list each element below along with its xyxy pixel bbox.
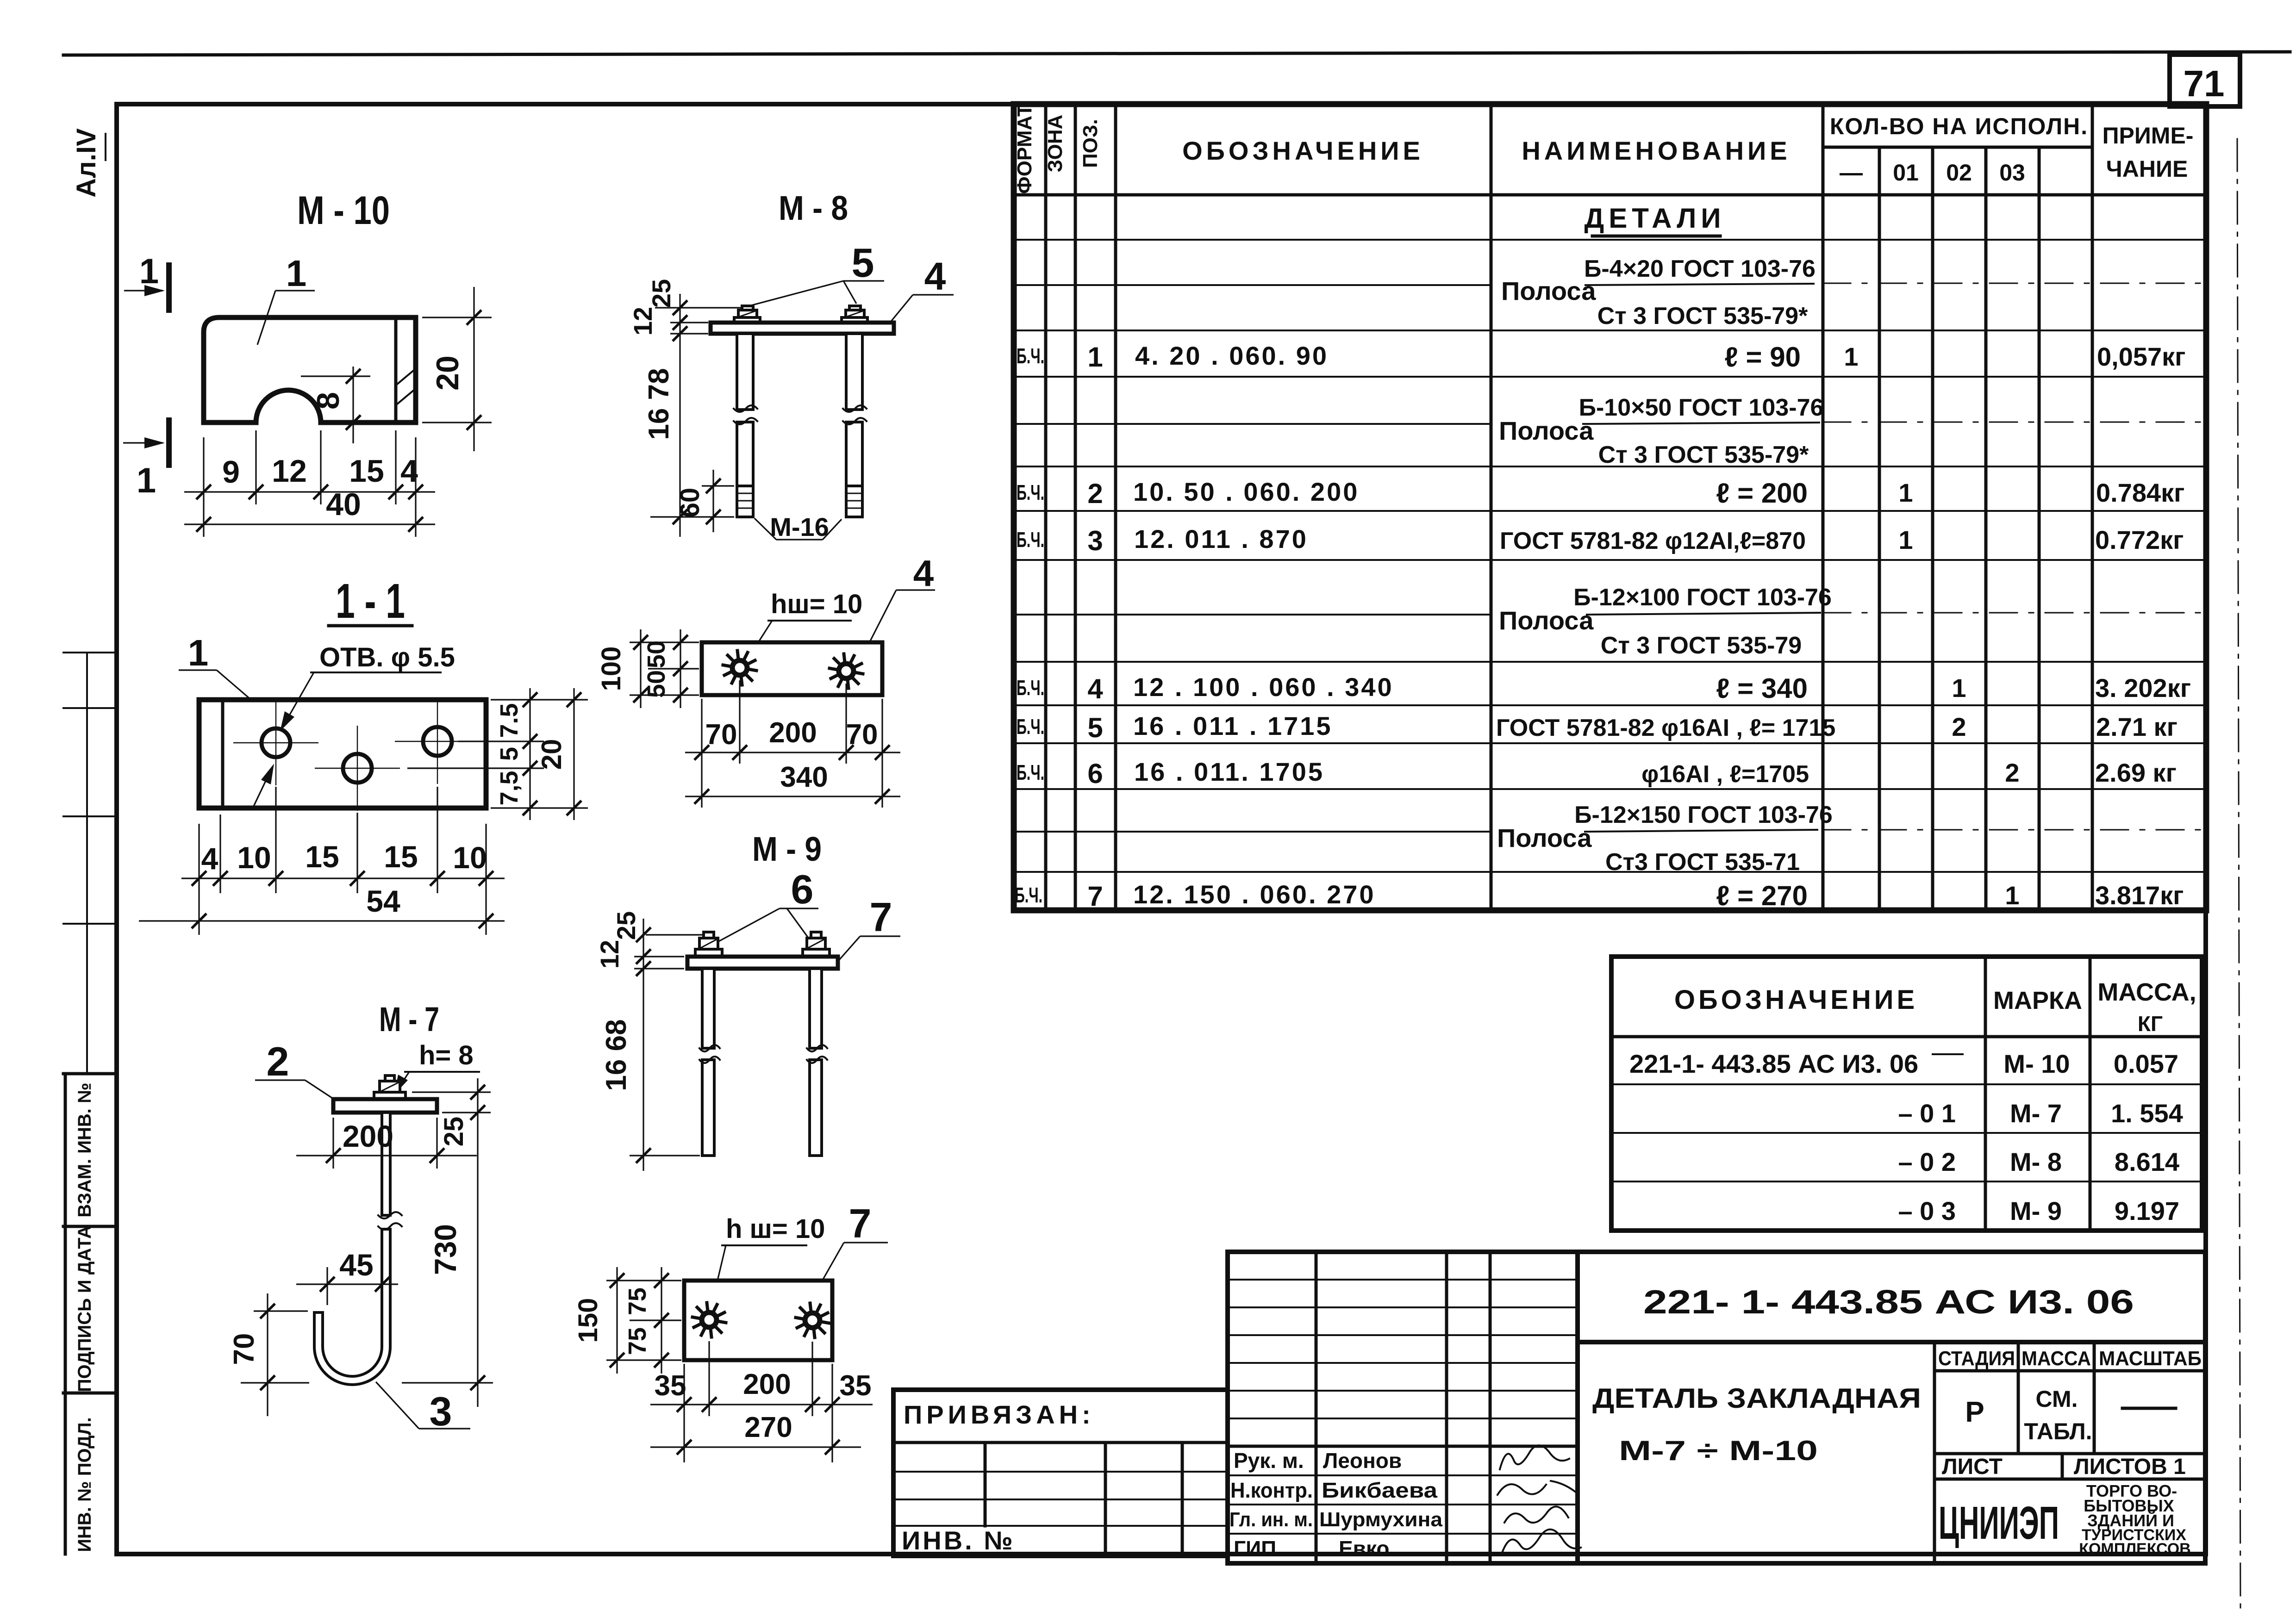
svg-text:730: 730 [428,1224,462,1275]
left anchor bolt 5 threaded end [737,486,753,517]
fraction entry Polosa B-12x100 [1499,584,1832,659]
svg-text:35: 35 [840,1370,872,1402]
svg-text:1: 1 [1898,478,1913,507]
marka row 2 [1898,1099,2183,1128]
svg-text:6: 6 [1087,758,1103,789]
weld symbol right M-9 [796,1303,829,1337]
svg-text:2.71 кг: 2.71 кг [2096,712,2177,741]
svg-text:h ш= 10: h ш= 10 [726,1214,825,1244]
svg-text:100: 100 [596,647,626,691]
svg-text:ДЕТАЛИ: ДЕТАЛИ [1585,203,1726,234]
svg-text:150: 150 [573,1298,603,1343]
svg-text:– 0 1: – 0 1 [1898,1099,1956,1128]
svg-text:Б.Ч.: Б.Ч. [1017,676,1044,700]
svg-text:Леонов: Леонов [1323,1449,1402,1473]
svg-text:340: 340 [780,761,828,793]
svg-text:70: 70 [228,1333,260,1365]
svg-text:200: 200 [343,1119,393,1153]
svg-text:ПРИМЕ-: ПРИМЕ- [2103,123,2194,149]
svg-text:0.784кг: 0.784кг [2096,478,2185,507]
section 1-1 plate [199,700,486,808]
part 1 plate M-10 outline [204,317,416,423]
bottom extension lines 1-1 [199,787,486,935]
svg-text:4: 4 [1087,673,1103,704]
weld symbol right M-8 [830,654,863,688]
svg-text:ОБОЗНАЧЕНИЕ: ОБОЗНАЧЕНИЕ [1674,985,1918,1015]
left washer M-8 [734,317,760,323]
svg-text:54: 54 [366,884,400,918]
org cell TsNIIEP [1939,1481,2191,1558]
svg-text:12: 12 [628,307,657,336]
anchor rod 3 hook [314,1229,390,1385]
section plate inner edge [221,700,225,808]
svg-text:1: 1 [1087,342,1103,373]
left margin attribute boxes [63,653,117,1554]
right washer M-9 [803,949,830,957]
svg-text:ЗОНА: ЗОНА [1044,115,1067,173]
svg-text:1: 1 [137,461,156,500]
sheet number box 71 [2170,55,2240,106]
svg-text:01: 01 [1893,160,1919,186]
bolt stub M-7 [385,1076,394,1081]
svg-text:8: 8 [311,392,346,410]
dimension 7.5 5 7.5 [495,688,537,820]
svg-text:1: 1 [139,252,159,291]
svg-text:ПОДПИСЬ И ДАТА: ПОДПИСЬ И ДАТА [75,1225,95,1392]
svg-text:ℓ = 90: ℓ = 90 [1725,342,1801,373]
svg-text:МАССА: МАССА [2021,1347,2091,1370]
svg-text:9.197: 9.197 [2115,1196,2179,1225]
svg-text:5: 5 [495,747,523,761]
svg-text:0,057кг: 0,057кг [2097,342,2186,371]
svg-text:1: 1 [1898,525,1913,554]
svg-text:КОМПЛЕКСОВ: КОМПЛЕКСОВ [2079,1540,2191,1558]
svg-text:Гл. ин. м.: Гл. ин. м. [1229,1508,1313,1531]
svg-text:hш= 10: hш= 10 [771,589,862,619]
svg-text:3: 3 [1087,525,1103,556]
right bolt stub M-8 [849,306,861,310]
right nut M-8 [846,310,864,317]
svg-text:8.614: 8.614 [2115,1147,2179,1176]
svg-text:75: 75 [624,1287,651,1315]
svg-text:φ16АI , ℓ=1705: φ16АI , ℓ=1705 [1641,761,1809,788]
svg-text:15: 15 [305,839,339,874]
svg-text:КГ: КГ [2138,1012,2163,1036]
plan M-9 left dims 150 75 75 [573,1267,681,1374]
right trim line (thin, dashed look) [2237,139,2240,1608]
dimension 40 [184,487,435,532]
plate 7 M-9 [687,957,838,969]
svg-text:Б.Ч.: Б.Ч. [1015,883,1042,907]
note h=8 [394,1040,479,1094]
svg-text:12. 011 . 870: 12. 011 . 870 [1134,524,1308,553]
row pos 6 [1017,757,2177,789]
row pos 5 [1017,711,2177,743]
svg-text:Ст 3 ГОСТ 535-79*: Ст 3 ГОСТ 535-79* [1598,442,1809,468]
svg-text:Ал.IV: Ал.IV [71,128,101,198]
right anchor bolt 5 lower [846,422,862,486]
svg-text:35: 35 [655,1370,686,1402]
svg-text:ГОСТ 5781-82 φ12АI,ℓ=870: ГОСТ 5781-82 φ12АI,ℓ=870 [1500,528,1806,554]
row pos 2 [1017,477,2185,509]
svg-text:Ст 3 ГОСТ 535-79*: Ст 3 ГОСТ 535-79* [1597,303,1808,330]
svg-text:9: 9 [222,454,240,490]
break marks M-9 legs [699,1045,827,1063]
left anchor bolt 5 lower [737,422,753,486]
dimension 8 (notch) [301,367,370,443]
svg-text:Ст3 ГОСТ 535-71: Ст3 ГОСТ 535-71 [1605,849,1800,876]
svg-text:25: 25 [439,1117,469,1147]
svg-text:2.69 кг: 2.69 кг [2095,758,2177,787]
dimension row 9 12 15 4 [184,454,435,499]
left nut M-9 [699,938,718,949]
signature names rows [1229,1449,1443,1561]
svg-text:200: 200 [769,717,817,749]
svg-text:3: 3 [430,1388,452,1434]
svg-text:7.5: 7.5 [495,703,523,738]
row pos 7 [1015,880,2184,912]
svg-text:6: 6 [791,866,814,912]
row pos 3 [1017,524,2184,556]
svg-text:1: 1 [188,632,209,673]
svg-text:М- 8: М- 8 [2010,1147,2062,1176]
top trim line [63,52,2290,55]
svg-text:Евко: Евко [1339,1536,1389,1561]
svg-text:МАРКА: МАРКА [1993,987,2082,1014]
svg-text:М- 9: М- 9 [2010,1196,2062,1225]
plan view M-9: weld note [711,1214,825,1310]
svg-text:КОЛ-ВО НА ИСПОЛН.: КОЛ-ВО НА ИСПОЛН. [1830,113,2088,139]
svg-text:70: 70 [705,719,737,751]
M-10 bottom extension lines [204,430,416,537]
svg-text:4: 4 [924,255,946,298]
row DETALI [1585,203,1726,236]
svg-text:1. 554: 1. 554 [2111,1099,2183,1128]
stamp Al.IV rotated [71,128,106,198]
svg-text:20: 20 [536,739,567,770]
left washer M-9 [695,949,722,957]
svg-text:15: 15 [384,839,418,874]
svg-text:1: 1 [1952,673,1966,703]
svg-text:1: 1 [2005,881,2019,910]
svg-text:16 . 011 . 1715: 16 . 011 . 1715 [1133,711,1333,740]
svg-text:ℓ = 270: ℓ = 270 [1716,880,1808,911]
svg-text:ГИП: ГИП [1234,1536,1276,1561]
dimension 20 right of M-10 [422,287,492,451]
svg-text:221- 1- 443.85 АС И3. 06: 221- 1- 443.85 АС И3. 06 [1643,1284,2134,1321]
svg-text:Н.контр.: Н.контр. [1230,1478,1313,1502]
svg-text:12: 12 [272,454,307,489]
row pos 4 [1017,672,2191,704]
svg-text:М-7 ÷ М-10: М-7 ÷ М-10 [1619,1435,1818,1466]
svg-text:ОТВ. φ 5.5: ОТВ. φ 5.5 [319,642,455,672]
svg-text:МАСШТАБ: МАСШТАБ [2099,1347,2202,1370]
svg-text:02: 02 [1946,160,1972,186]
svg-text:2: 2 [1087,478,1103,509]
svg-text:3. 202кг: 3. 202кг [2095,673,2191,703]
left anchor bolt 6 lower [702,1060,714,1156]
part M-10 inner edge line [394,317,398,423]
leader 6 bolts M-9 [712,866,818,945]
header PRIMECHANIE [2103,123,2194,182]
svg-text:Полоса: Полоса [1501,276,1596,305]
svg-text:НАИМЕНОВАНИЕ: НАИМЕНОВАНИЕ [1522,136,1791,165]
plan view M-8 plate 4 [702,642,882,695]
svg-text:7: 7 [870,894,892,940]
right washer M-8 [842,317,867,323]
svg-text:70: 70 [846,719,878,751]
svg-text:М- 10: М- 10 [2003,1049,2070,1078]
privyazan block frame [893,1390,1228,1556]
svg-text:2: 2 [267,1038,289,1084]
svg-text:Рук. м.: Рук. м. [1234,1449,1304,1473]
plan view M-9 plate 7 [684,1281,832,1360]
svg-text:1 - 1: 1 - 1 [336,574,405,628]
leader 3 hook M-7 [376,1382,470,1434]
title block main divider [1575,1252,1580,1563]
svg-text:Р: Р [1965,1396,1984,1428]
svg-text:М - 9: М - 9 [752,830,822,868]
svg-text:ДЕТАЛЬ ЗАКЛАДНАЯ: ДЕТАЛЬ ЗАКЛАДНАЯ [1592,1383,1921,1414]
dimension 45 M-7 [296,1248,398,1305]
plate 2 M-7 [333,1099,437,1113]
svg-text:2: 2 [1952,712,1966,741]
section cut mark 1 lower [123,420,169,500]
svg-text:М- 7: М- 7 [2010,1099,2062,1128]
svg-text:50: 50 [643,670,670,698]
svg-text:М - 8: М - 8 [779,189,848,227]
svg-text:10: 10 [237,840,271,875]
svg-text:Б-12×150 ГОСТ 103-76: Б-12×150 ГОСТ 103-76 [1574,802,1833,828]
right extension lines 1-1 [407,700,588,808]
svg-text:15: 15 [349,454,384,489]
leader 1 on section plate [179,632,250,699]
hole 2 [315,726,400,811]
title block left grid columns [1316,1252,1490,1563]
svg-text:– 0 3: – 0 3 [1898,1196,1956,1225]
leader 5 bolts M-8 [751,240,884,305]
svg-text:ЧАНИЕ: ЧАНИЕ [2106,156,2188,182]
marka row 1 [1629,1049,2178,1078]
plan M-8 left dims 100 50 50 [596,629,699,708]
stadia massa masshtab values [1965,1386,2176,1444]
svg-text:ИНВ. №: ИНВ. № [902,1526,1015,1555]
svg-text:5: 5 [1087,712,1103,743]
right anchor bolt 5 threaded end [846,486,862,517]
svg-text:45: 45 [339,1248,373,1282]
section cut mark 1 upper [124,252,169,310]
stadia massa masshtab header [1934,1342,2205,1563]
svg-text:7: 7 [1087,881,1103,912]
svg-text:4. 20 . 060. 90: 4. 20 . 060. 90 [1135,341,1329,370]
right anchor bolt 6 lower [810,1060,822,1156]
svg-text:71: 71 [2184,63,2225,104]
svg-text:Б-4×20 ГОСТ 103-76: Б-4×20 ГОСТ 103-76 [1584,255,1816,282]
leader 1 on M-10 [257,253,315,345]
svg-text:0.057: 0.057 [2114,1049,2178,1078]
svg-text:4: 4 [400,454,418,489]
hole 3 [395,699,480,784]
plan view M-9: leader 7 [823,1200,888,1280]
dimension 200 M-7 [296,1118,477,1169]
name cell detail zakladnaya [1592,1383,1921,1466]
label M-16 [755,512,842,541]
fraction entry Polosa B-4x20 [1501,255,1816,330]
svg-text:12: 12 [595,940,624,969]
svg-text:0.772кг: 0.772кг [2095,525,2184,554]
dimensions 25 12 1678 M-8 [628,279,741,537]
svg-text:2: 2 [2005,758,2019,787]
svg-text:ℓ = 340: ℓ = 340 [1716,673,1808,704]
plan view M-8: weld note [745,589,862,663]
svg-text:ℓ = 200: ℓ = 200 [1716,478,1808,509]
svg-text:16 68: 16 68 [600,1019,632,1091]
marka table headers [1674,978,2196,1036]
fraction entry Polosa B-12x150 [1497,802,1833,876]
dimensions 25 12 1668 M-9 [595,911,704,1171]
svg-text:25: 25 [611,911,641,940]
svg-text:ПРИВЯЗАН:: ПРИВЯЗАН: [904,1400,1095,1429]
dimension 54 [139,884,505,928]
svg-text:60: 60 [675,488,705,518]
weld symbol left M-9 [693,1303,726,1337]
svg-text:10. 50 . 060. 200: 10. 50 . 060. 200 [1133,477,1359,506]
svg-text:200: 200 [743,1368,791,1400]
svg-text:03: 03 [1999,160,2025,186]
weld symbol left M-8 [723,651,756,685]
svg-text:Б.Ч.: Б.Ч. [1017,528,1044,552]
svg-text:Ст 3 ГОСТ 535-79: Ст 3 ГОСТ 535-79 [1601,632,1802,659]
svg-text:МАССА,: МАССА, [2097,978,2196,1006]
svg-text:12 . 100 . 060 . 340: 12 . 100 . 060 . 340 [1133,672,1394,702]
svg-text:16 78: 16 78 [643,368,675,440]
dimension 20 section [536,688,581,820]
svg-text:Б.Ч.: Б.Ч. [1017,344,1044,368]
svg-text:Б.Ч.: Б.Ч. [1017,480,1044,504]
svg-text:ПОЗ.: ПОЗ. [1079,119,1102,168]
svg-text:4: 4 [913,553,934,594]
signatures squiggles [1497,1445,1581,1553]
left anchor bolt 5 upper [737,334,753,410]
svg-text:5: 5 [852,240,874,286]
svg-text:ГОСТ 5781-82 φ16АI , ℓ= 1715: ГОСТ 5781-82 φ16АI , ℓ= 1715 [1496,715,1835,741]
svg-text:ФОРМАТ: ФОРМАТ [1013,104,1036,194]
svg-text:1: 1 [286,253,307,294]
left bolt stub M-8 [742,306,753,310]
svg-text:ОБОЗНАЧЕНИЕ: ОБОЗНАЧЕНИЕ [1182,136,1424,165]
svg-text:16 . 011. 1705: 16 . 011. 1705 [1134,757,1324,786]
section 1-1 title [329,574,412,628]
svg-text:50: 50 [643,640,670,668]
marka row 4 [1898,1196,2179,1225]
title block left grid rows [1228,1280,1578,1534]
anchor rod 3 upper segment [382,1113,390,1215]
svg-text:40: 40 [326,487,361,522]
doc number cell [1578,1284,2205,1342]
list listov row [1934,1454,2205,1479]
right anchor bolt 5 upper [846,334,862,410]
marka mass table frame [1611,957,2202,1231]
svg-text:Б.Ч.: Б.Ч. [1017,760,1044,784]
svg-text:ИНВ. № ПОДЛ.: ИНВ. № ПОДЛ. [75,1417,95,1552]
svg-text:Б-12×100 ГОСТ 103-76: Б-12×100 ГОСТ 103-76 [1573,584,1832,611]
svg-text:12. 150 . 060. 270: 12. 150 . 060. 270 [1133,880,1376,909]
right bolt stub M-9 [811,932,821,938]
plan M-8 bottom dims 70 200 70 340 [685,680,900,808]
svg-text:Б.Ч.: Б.Ч. [1017,715,1044,739]
svg-text:М - 7: М - 7 [379,1000,439,1038]
svg-text:Б-10×50 ГОСТ 103-76: Б-10×50 ГОСТ 103-76 [1579,394,1824,421]
svg-text:Шурмухина: Шурмухина [1319,1508,1443,1531]
dimension row 4 10 15 15 10 [181,839,505,886]
svg-text:10: 10 [453,840,487,875]
svg-text:М-16: М-16 [770,512,829,541]
row pos 1 [1017,341,2186,373]
left nut M-8 [738,310,757,317]
left bolt stub M-9 [704,932,714,938]
parts table row lines [1014,240,2206,872]
svg-text:ТАБЛ.: ТАБЛ. [2024,1418,2092,1444]
svg-text:СМ.: СМ. [2036,1386,2078,1412]
leader 4 plate M-8 [885,255,954,329]
svg-text:Бикбаева: Бикбаева [1322,1478,1437,1502]
svg-text:ЦНИИЭП: ЦНИИЭП [1939,1497,2059,1549]
svg-text:221-1- 443.85 АС И3. 06: 221-1- 443.85 АС И3. 06 [1629,1049,1918,1078]
right nut M-9 [807,938,825,949]
svg-text:– 0 2: – 0 2 [1898,1147,1956,1176]
plan M-9 bottom dims 35 200 35 270 [650,1341,873,1462]
washer M-7 [374,1092,406,1099]
part M-10 cut hatch marks [397,370,414,404]
svg-text:1: 1 [1844,342,1858,371]
plate 4 M-8 [711,323,894,334]
fraction entry Polosa B-10x50 [1499,394,1823,468]
leader 2 plate M-7 [255,1038,344,1106]
svg-text:ЛИСТОВ 1: ЛИСТОВ 1 [2074,1455,2186,1479]
svg-text:ВЗАМ. ИНВ. №: ВЗАМ. ИНВ. № [75,1082,95,1217]
svg-text:3.817кг: 3.817кг [2095,881,2184,910]
dimension 60 M-8 [650,470,734,532]
nut M-7 [380,1081,400,1092]
hole note OTV 5.5 [254,642,455,806]
svg-text:7,5: 7,5 [495,771,523,805]
svg-text:7: 7 [849,1200,872,1246]
svg-text:ЛИСТ: ЛИСТ [1942,1455,2003,1479]
rod break marks [378,1212,402,1230]
hole 1 [233,700,318,785]
parts list table frame [1014,104,2206,910]
break marks M-8 legs [734,405,867,424]
svg-text:М - 10: М - 10 [297,188,390,233]
svg-text:270: 270 [744,1412,792,1443]
svg-text:4: 4 [201,841,218,876]
dimension 25 and 730 M-7 [412,1078,491,1407]
right anchor bolt 6 upper [810,969,822,1048]
leader 7 plate M-9 [839,894,900,960]
title block outer frame [1228,1252,2205,1563]
marka row 3 [1898,1147,2179,1176]
svg-text:—: — [1840,160,1863,186]
svg-text:СТАДИЯ: СТАДИЯ [1938,1347,2015,1370]
svg-text:20: 20 [430,355,465,391]
left anchor bolt 6 upper [702,969,714,1048]
svg-text:75: 75 [624,1327,651,1355]
svg-text:25: 25 [647,279,676,308]
svg-text:h= 8: h= 8 [419,1040,474,1070]
plan view M-8: leader 4 [862,553,935,657]
dimension 70 M-7 [228,1293,493,1416]
